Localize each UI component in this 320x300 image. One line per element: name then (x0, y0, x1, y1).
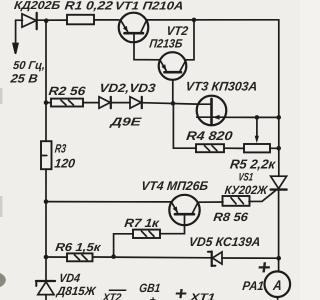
node junction rail VD5 (276, 256, 281, 261)
scan artifact left edge mid (0, 88, 2, 104)
svg-text:50 Гц,: 50 Гц, (12, 60, 45, 72)
label VT2 (166, 24, 189, 38)
label plus XT1 (173, 284, 188, 300)
svg-text:VT3 КП303А: VT3 КП303А (185, 79, 258, 93)
label 120 (54, 157, 76, 171)
wire R5 wiper (256, 117, 258, 136)
diode VD2 (99, 97, 111, 108)
wire VT2 base lead (172, 80, 174, 104)
resistor R6 1,5к (67, 253, 93, 261)
svg-text:GB1: GB1 (138, 281, 161, 295)
label VS1 (238, 172, 254, 184)
wire top rail to R1 (37, 19, 67, 21)
wire bottom net left (46, 256, 67, 258)
svg-text:R3: R3 (54, 142, 67, 156)
label VT4 МП26Б (140, 179, 209, 193)
label VD4 (58, 271, 81, 285)
svg-text:120: 120 (54, 157, 76, 171)
diode VD5 КС139А zener (208, 252, 222, 267)
label VT1 П210А (114, 0, 184, 12)
diode VD1 КД202Б (22, 14, 36, 27)
wire VD5 to rail (222, 257, 279, 259)
thyristor VS1 КУ202Ж (271, 176, 287, 189)
label РА1 (242, 279, 265, 293)
resistor R4 820 (196, 144, 224, 152)
resistor R2 56 (51, 99, 83, 107)
wire VT1 base lead (134, 33, 160, 60)
wire left rail lower (45, 169, 47, 281)
svg-text:VD5 КС139А: VD5 КС139А (188, 235, 261, 249)
svg-text:+: + (173, 284, 188, 300)
resistor R3 120 (41, 141, 52, 169)
label VT3 КП303А (185, 79, 258, 93)
node junction VT2 collector rail (192, 18, 197, 23)
label R3 (54, 142, 67, 156)
scan artifact bottom-left smudge (0, 273, 6, 287)
wire top rail right section (146, 19, 278, 21)
label ХТ2 overline (109, 289, 127, 291)
svg-text:РА1: РА1 (242, 279, 265, 293)
node junction rail upper (276, 115, 281, 120)
svg-text:VT4 МП26Б: VT4 МП26Б (140, 179, 209, 193)
svg-text:КУ202Ж: КУ202Ж (224, 183, 269, 197)
wire right rail lower (278, 190, 280, 272)
node junction rail R5 (276, 146, 281, 151)
transistor VT4 МП26Б (169, 195, 199, 225)
svg-text:25 В: 25 В (9, 72, 39, 86)
node junction R7 tap (111, 254, 116, 259)
wire VT4 base lead (160, 214, 185, 234)
resistor R1 0,22 (67, 15, 94, 24)
transistor VT2 П213Б (159, 52, 187, 80)
node junction top-left (44, 18, 49, 23)
svg-text:А: А (271, 277, 282, 293)
label R7 1к (124, 216, 161, 230)
label R6 1,5к (55, 242, 103, 254)
label VD5 КС139А (188, 235, 261, 249)
label ХТ2 (101, 292, 122, 300)
label PA1 plus (256, 257, 272, 279)
resistor R8 56 (223, 196, 250, 206)
node junction wiper (255, 115, 260, 120)
label КУ202Ж (224, 183, 269, 197)
node junction R6 left (44, 255, 49, 260)
wire VD2 to VD3 (111, 102, 130, 104)
label ХТ1 (188, 292, 215, 300)
svg-text:R4 820: R4 820 (186, 129, 234, 143)
svg-text:VD2,VD3: VD2,VD3 (99, 81, 157, 95)
wire VT4 emitter long (46, 201, 172, 203)
node junction VT4 emitter net (44, 199, 49, 204)
svg-text:Д815Ж: Д815Ж (55, 284, 97, 298)
node junction R2 left (44, 100, 49, 105)
wire VT4 collector to R8 (198, 201, 223, 203)
wire right rail upper (278, 20, 280, 177)
wire VT2 collector riser (186, 20, 194, 60)
wire VS1 gate (249, 191, 276, 202)
label GB1 (138, 281, 161, 295)
wire R4 branch riser (173, 103, 196, 148)
svg-text:VS1: VS1 (238, 172, 254, 184)
label 50 Гц, (12, 60, 45, 72)
wire R1 to VT1 (94, 19, 119, 21)
wire left rail upper (45, 21, 47, 142)
label П213Б (149, 36, 184, 50)
wire R2 to VD2 (83, 102, 99, 104)
label 25 В (9, 72, 39, 86)
label Д9Е (109, 116, 142, 128)
svg-text:ХТ1: ХТ1 (188, 292, 215, 300)
transistor VT1 П210А (119, 13, 149, 43)
resistor R7 1к (133, 230, 160, 238)
label battery plus (149, 295, 156, 300)
svg-text:R5 2,2к: R5 2,2к (229, 157, 277, 172)
label А inside PA1 (271, 277, 282, 293)
wire R7 left lead (114, 234, 133, 257)
svg-text:+: + (149, 295, 156, 300)
scan artifact left edge lower (0, 196, 2, 217)
svg-text:R2 56: R2 56 (48, 84, 87, 98)
wire input drop (15, 20, 17, 44)
label R4 820 (186, 129, 234, 143)
svg-text:R7 1к: R7 1к (124, 216, 161, 230)
label R8 56 (213, 210, 250, 224)
diode VD4 Д815Ж zener (36, 281, 55, 300)
label R2 56 (48, 84, 87, 98)
transistor VT3 КП303А (197, 96, 227, 126)
resistor R5 2,2к variable (244, 144, 270, 152)
label R1 0,22 (64, 0, 114, 12)
wire R5 to rail (270, 147, 279, 149)
svg-text:КД202Б: КД202Б (13, 0, 60, 12)
wire top rail input segment (16, 19, 23, 21)
ammeter PA1 (265, 271, 291, 297)
node junction VT2 base / R4 (171, 101, 176, 106)
svg-text:ХТ2: ХТ2 (101, 292, 122, 300)
wire PA1 bottom stub (277, 297, 279, 300)
svg-text:R6 1,5к: R6 1,5к (55, 242, 103, 254)
label КД202Б (13, 0, 60, 12)
wire VD3 to VT3 gate (142, 103, 197, 104)
label VD2,VD3 (99, 81, 157, 95)
wire R4 to R5 (224, 147, 244, 149)
wire R6 to VD5 (93, 256, 212, 259)
wire VT3 source to rail (226, 116, 278, 118)
wire rail to R2 (46, 102, 51, 104)
svg-text:R1 0,22: R1 0,22 (64, 0, 114, 12)
svg-text:VT1 П210А: VT1 П210А (114, 0, 184, 12)
svg-text:R8 56: R8 56 (213, 210, 250, 224)
label R5 2,2к (229, 157, 277, 172)
svg-text:Д9Е: Д9Е (109, 116, 142, 128)
diode VD3 (130, 97, 142, 108)
svg-text:П213Б: П213Б (149, 36, 184, 50)
label Д815Ж (55, 284, 97, 298)
node input arrow (13, 44, 18, 54)
